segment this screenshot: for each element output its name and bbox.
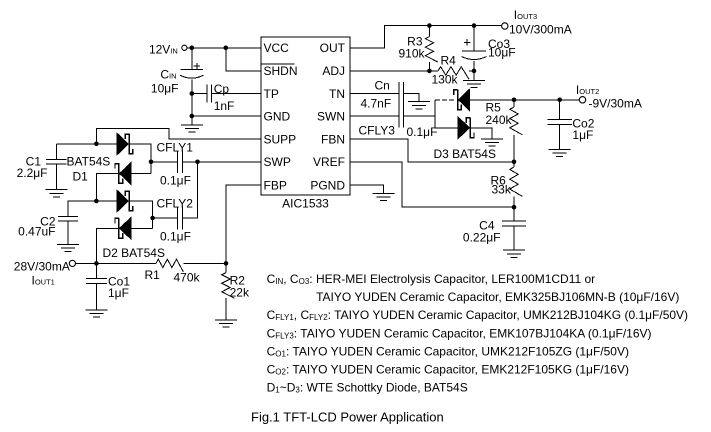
- svg-text:1μF: 1μF: [108, 286, 129, 300]
- pin SHDN overline: [262, 63, 295, 65]
- svg-text:10μF: 10μF: [488, 46, 516, 60]
- capacitor C2 symbol: [58, 216, 78, 221]
- wire OUT pin routing: [350, 26, 502, 48]
- capacitor Co1 symbol: [86, 279, 107, 284]
- svg-text:BAT54S: BAT54S: [67, 154, 111, 168]
- junction CFLY1 left node: [149, 160, 154, 165]
- wire PGND to ground: [350, 185, 383, 193]
- svg-text:ADJ: ADJ: [322, 64, 345, 78]
- diode D1b: [115, 163, 131, 185]
- wire R6 top lead: [513, 162, 515, 167]
- wire Co3 to ground: [473, 71, 475, 80]
- svg-text:1nF: 1nF: [214, 99, 235, 113]
- ground Co2: [549, 149, 571, 156]
- resistor R6: [510, 167, 523, 196]
- wire Co3 top lead: [473, 26, 475, 51]
- wire Co2 bottom lead: [559, 125, 561, 150]
- svg-text:Cp: Cp: [214, 82, 230, 96]
- wire VREF routing: [350, 162, 514, 207]
- wire TP row to Cp: [192, 93, 207, 95]
- svg-text:33k: 33k: [492, 182, 512, 196]
- svg-text:SWN: SWN: [317, 109, 345, 123]
- svg-text:R4: R4: [441, 53, 457, 67]
- resistor R2: [222, 273, 235, 299]
- wire R3 top lead: [428, 26, 430, 37]
- wire CFLY1 right to SWP pin: [183, 161, 261, 163]
- svg-text:0.1μF: 0.1μF: [160, 230, 191, 244]
- svg-text:CFLY2: CFLY2: [157, 197, 194, 211]
- svg-text:VREF: VREF: [313, 155, 345, 169]
- wire R2 top lead: [225, 263, 227, 272]
- junction R6/C4/VREF node: [512, 205, 517, 210]
- wire D3b anode lead: [435, 127, 458, 129]
- ground Cn: [408, 102, 430, 109]
- terminal IOUT3: [502, 23, 508, 29]
- junction Co3 top: [472, 23, 477, 28]
- op-amp U1 AIC1533 box: [261, 37, 350, 195]
- svg-text:FBN: FBN: [321, 133, 345, 147]
- svg-text:CFLY1: CFLY1: [157, 141, 194, 155]
- resistor R4: [438, 67, 469, 80]
- wire TN row to Cn: [350, 93, 399, 95]
- capacitor CFLY2 symbol: [178, 207, 183, 230]
- svg-text:SHDN: SHDN: [264, 64, 298, 78]
- wire R4 right lead: [469, 70, 474, 72]
- wire D3b cathode to ground: [471, 128, 492, 139]
- wire R4 left lead: [429, 70, 438, 72]
- wire R2 bottom lead: [225, 298, 227, 320]
- svg-text:0.22μF: 0.22μF: [463, 230, 501, 244]
- junction CIN tap: [190, 46, 195, 51]
- capacitor Co2 symbol: [548, 120, 572, 125]
- junction SHDN tap: [224, 46, 229, 51]
- capacitor CIN symbol: [180, 70, 203, 79]
- wire Co2 top lead: [559, 100, 561, 120]
- wire CIN top lead: [191, 48, 193, 70]
- diode D2a: [117, 190, 133, 212]
- wire Cn right to ground: [404, 94, 419, 102]
- junction SWP node: [195, 160, 200, 165]
- wire SUPP pin routing: [96, 128, 261, 144]
- diode D1a: [117, 133, 133, 155]
- svg-text:CO2: TAIYO YUDEN Ceramic Capac: CO2: TAIYO YUDEN Ceramic Capacitor, EMK2…: [267, 363, 629, 377]
- svg-text:R1: R1: [145, 268, 161, 282]
- resistor R1: [156, 259, 183, 272]
- svg-text:-9V/30mA: -9V/30mA: [589, 96, 642, 110]
- wire R1 to R2 node: [183, 262, 226, 264]
- ground C4: [503, 250, 525, 257]
- svg-text:2.2μF: 2.2μF: [17, 166, 48, 180]
- svg-text:SUPP: SUPP: [264, 133, 297, 147]
- ground Co1: [85, 310, 107, 317]
- wire SWP node down to CFLY2: [183, 162, 198, 218]
- svg-text:470k: 470k: [174, 271, 201, 285]
- wire SWN row to CFLY3: [350, 115, 399, 117]
- resistor R3: [425, 37, 438, 62]
- wire D2a anode: [96, 200, 117, 202]
- svg-text:4.7nF: 4.7nF: [361, 96, 392, 110]
- wire D1a cathode to D1b anode: [130, 144, 151, 174]
- wire Co3 bottom lead: [473, 61, 475, 71]
- svg-text:22k: 22k: [230, 285, 250, 299]
- svg-text:D3 BAT54S: D3 BAT54S: [434, 147, 496, 161]
- diode D2b: [115, 217, 131, 239]
- wire Co1 bottom lead: [95, 284, 97, 310]
- svg-text:SWP: SWP: [264, 155, 291, 169]
- svg-text:0.1μF: 0.1μF: [160, 174, 191, 188]
- svg-text:TP: TP: [264, 87, 279, 101]
- plus sign Co3: [464, 39, 471, 46]
- wire SHDN tie to 12V: [226, 48, 261, 71]
- wire CFLY3 right to D3 bracket: [404, 115, 435, 117]
- wire CFLY2 left: [153, 217, 178, 219]
- svg-text:TN: TN: [329, 87, 345, 101]
- wire C4 bottom lead: [513, 226, 515, 250]
- junction ADJ/R3/R4 node: [427, 69, 432, 74]
- wire FBN routing: [350, 139, 514, 162]
- junction Co2 tap: [557, 98, 562, 103]
- capacitor Cn symbol: [399, 82, 404, 105]
- junction R4/Co3 ground node: [472, 69, 477, 74]
- svg-text:AIC1533: AIC1533: [282, 197, 329, 211]
- svg-text:0.1μF: 0.1μF: [407, 125, 438, 139]
- wire IOUT1 row: [75, 262, 156, 264]
- wire D1b cathode to C2/D2 node: [96, 174, 118, 202]
- svg-text:VCC: VCC: [264, 41, 290, 55]
- ground Co3: [463, 80, 485, 87]
- ground C2: [57, 245, 79, 252]
- terminal IOUT2: [579, 97, 585, 103]
- wire D1b anode lead: [131, 173, 151, 175]
- junction R5/R6/FBN node: [512, 160, 517, 165]
- svg-text:CO1: TAIYO YUDEN Ceramic Capac: CO1: TAIYO YUDEN Ceramic Capacitor, UMK2…: [267, 344, 629, 358]
- ground D3b: [481, 139, 503, 146]
- junction R5 top node: [512, 98, 517, 103]
- capacitor CFLY3 symbol: [399, 105, 404, 128]
- svg-text:GND: GND: [264, 109, 291, 123]
- svg-text:CFLY1, CFLY2: TAIYO YUDEN Cera: CFLY1, CFLY2: TAIYO YUDEN Ceramic Capaci…: [267, 308, 688, 322]
- wire R5 bottom lead: [513, 135, 515, 162]
- ground PGND: [372, 193, 394, 200]
- wire R3 bottom lead: [428, 62, 430, 71]
- wire Co1 top lead: [95, 263, 97, 278]
- wire R5 top lead: [513, 100, 515, 107]
- svg-text:CFLY3: CFLY3: [359, 123, 396, 137]
- wire D2a cathode to D2b anode: [130, 201, 153, 228]
- ground input: [181, 125, 203, 132]
- capacitor C1 symbol: [46, 159, 66, 164]
- wire -9V rail: [514, 99, 580, 101]
- capacitor C4 symbol: [502, 221, 526, 226]
- wire ADJ row: [350, 70, 429, 72]
- plus sign CIN: [194, 63, 201, 70]
- junction TP tap: [190, 91, 195, 96]
- ground R2: [215, 320, 237, 327]
- svg-text:0.47uF: 0.47uF: [18, 225, 55, 239]
- junction C2/D2 node: [94, 199, 99, 204]
- svg-text:28V/30mA: 28V/30mA: [14, 259, 70, 273]
- wire D3a cathode lead dashed: [435, 99, 454, 101]
- wire 12VIN to VCC pin: [187, 47, 261, 49]
- wire Cp to TP pin: [212, 93, 261, 95]
- junction C1/D1 node: [94, 142, 99, 147]
- wire FBP routing: [226, 185, 261, 263]
- wire C1 bottom lead: [55, 164, 57, 190]
- svg-text:D1: D1: [73, 169, 89, 183]
- wire C4 top lead: [513, 207, 515, 221]
- svg-text:FBP: FBP: [264, 178, 287, 192]
- wire CFLY1 left: [151, 161, 178, 163]
- wire D3 bracket: [434, 100, 436, 128]
- svg-text:CFLY3: TAIYO YUDEN Ceramic Cap: CFLY3: TAIYO YUDEN Ceramic Capacitor, EM…: [267, 326, 652, 340]
- svg-text:10V/300mA: 10V/300mA: [509, 22, 572, 36]
- wire C1 top lead: [56, 144, 96, 160]
- junction Co1 tap: [94, 261, 99, 266]
- svg-text:240k: 240k: [486, 113, 513, 127]
- diode D3a: [454, 89, 470, 111]
- resistor R5: [510, 107, 523, 135]
- wire CIN bottom to GND pin: [191, 80, 193, 125]
- terminal IOUT1: [69, 260, 75, 266]
- svg-text:D2 BAT54S: D2 BAT54S: [103, 246, 165, 260]
- wire D2b anode lead: [131, 227, 153, 229]
- svg-text:910k: 910k: [398, 46, 425, 60]
- junction R1/R2/FBP node: [224, 261, 229, 266]
- junction R3 top: [427, 23, 432, 28]
- svg-text:TAIYO YUDEN Ceramic Capacitor,: TAIYO YUDEN Ceramic Capacitor, EMK325BJ1…: [316, 290, 679, 304]
- junction GND tap: [190, 114, 195, 119]
- svg-text:Fig.1 TFT-LCD Power Applicatio: Fig.1 TFT-LCD Power Application: [251, 410, 444, 425]
- junction CFLY2 left node: [150, 216, 155, 221]
- svg-text:PGND: PGND: [310, 178, 345, 192]
- wire D1a anode: [96, 143, 117, 145]
- svg-text:OUT: OUT: [320, 41, 346, 55]
- svg-text:1μF: 1μF: [572, 128, 593, 142]
- wire C2 top lead: [68, 201, 96, 216]
- wire GND row: [192, 115, 261, 117]
- capacitor Co3 symbol: [462, 51, 487, 60]
- terminal 12VIN: [182, 45, 187, 50]
- wire D2b cathode to IOUT1 node: [96, 228, 118, 263]
- svg-text:Cn: Cn: [375, 79, 390, 93]
- capacitor Cp symbol: [207, 84, 212, 102]
- wire D3a anode to R5 node: [470, 99, 514, 101]
- svg-text:10μF: 10μF: [151, 82, 179, 96]
- svg-text:CIN, CO3: HER-MEI Electrolysis: CIN, CO3: HER-MEI Electrolysis Capacitor…: [267, 272, 596, 286]
- wire C2 bottom lead: [67, 221, 69, 244]
- diode D3b: [458, 117, 474, 139]
- ground C1: [45, 190, 67, 197]
- svg-text:130k: 130k: [432, 72, 459, 86]
- wire R6 bottom lead: [513, 196, 515, 207]
- capacitor CFLY1 symbol: [178, 151, 183, 174]
